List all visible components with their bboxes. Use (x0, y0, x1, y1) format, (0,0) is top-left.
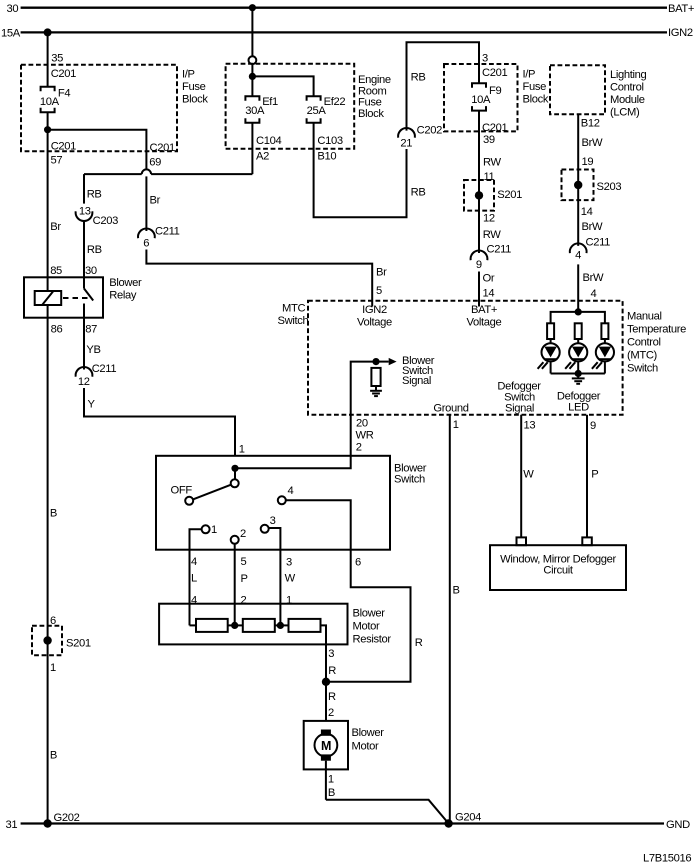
svg-text:Voltage: Voltage (467, 317, 502, 329)
svg-text:Engine: Engine (358, 74, 391, 86)
svg-text:B10: B10 (317, 151, 336, 163)
svg-text:Control: Control (610, 82, 644, 94)
svg-text:C203: C203 (93, 215, 118, 227)
relay contact (63, 277, 93, 317)
svg-text:P: P (591, 469, 598, 481)
svg-text:13: 13 (524, 420, 536, 432)
splice S203 (562, 170, 622, 234)
svg-text:Circuit: Circuit (543, 565, 573, 577)
connector C211 pin 6 (138, 225, 180, 249)
svg-text:14: 14 (483, 288, 495, 300)
svg-text:1: 1 (239, 444, 245, 456)
svg-text:BrW: BrW (583, 272, 604, 284)
svg-text:IGN2: IGN2 (362, 304, 387, 316)
svg-text:RB: RB (87, 244, 102, 256)
svg-text:(MTC): (MTC) (627, 350, 658, 362)
wire R2 to R3 (275, 624, 289, 626)
svg-text:B: B (453, 585, 460, 597)
fuse Ef1 30A (245, 96, 278, 123)
svg-text:WR: WR (356, 430, 374, 442)
node G202 (43, 812, 79, 828)
wire L blower switch 4 to resistor (190, 550, 198, 626)
wire 30 bus to engine room fuse block (251, 8, 253, 57)
svg-text:C211: C211 (92, 363, 117, 375)
svg-text:C211: C211 (586, 237, 611, 249)
svg-text:Module: Module (610, 94, 645, 106)
svg-text:GND: GND (666, 819, 690, 831)
resistor LED 3 (601, 323, 608, 343)
relay Blower Relay (24, 277, 142, 318)
wire A2 horizontal with hop over Br wire (84, 169, 252, 174)
I/P Fuse Block 2 (444, 53, 549, 132)
svg-text:25A: 25A (307, 105, 327, 117)
wire W blower switch 3 to resistor (280, 550, 295, 626)
connector C202 pin 21 (398, 71, 442, 198)
svg-text:21: 21 (400, 137, 412, 149)
svg-text:Blower: Blower (109, 277, 142, 289)
splice S201 (464, 180, 522, 241)
svg-text:Y: Y (88, 399, 96, 411)
svg-text:BrW: BrW (582, 137, 603, 149)
svg-text:IGN2: IGN2 (668, 27, 693, 39)
svg-text:4: 4 (191, 595, 197, 607)
resistor R3 (289, 619, 321, 632)
svg-text:BrW: BrW (582, 221, 603, 233)
switch contact 2 (231, 528, 246, 550)
svg-text:4: 4 (591, 288, 597, 300)
splice S201 on B wire (32, 615, 91, 674)
svg-text:1: 1 (211, 524, 217, 536)
svg-text:15A: 15A (1, 28, 21, 40)
svg-text:L7B15016: L7B15016 (643, 853, 691, 864)
node junction above Ef1 (249, 73, 256, 80)
svg-text:Lighting: Lighting (610, 69, 647, 81)
svg-text:S203: S203 (597, 181, 622, 193)
switch wiper pivot (193, 468, 239, 499)
svg-text:BAT+: BAT+ (471, 304, 497, 316)
wire Or to MTC pin 14 (479, 272, 495, 307)
svg-text:G204: G204 (455, 812, 481, 824)
svg-text:Temperature: Temperature (627, 324, 686, 336)
svg-text:2: 2 (240, 528, 246, 540)
svg-text:Control: Control (627, 337, 661, 349)
wire Y to blower switch pin 1 (84, 388, 245, 456)
svg-text:RW: RW (483, 229, 502, 241)
LED 1 (538, 343, 560, 373)
wire fuse F4 output (47, 112, 49, 152)
svg-text:86: 86 (51, 324, 63, 336)
svg-text:C201: C201 (150, 142, 175, 154)
wire motor output B to G204 (326, 761, 449, 824)
svg-text:19: 19 (582, 156, 594, 168)
svg-text:1: 1 (50, 662, 56, 674)
label Defogger LED (557, 391, 601, 414)
svg-text:C211: C211 (155, 225, 180, 237)
svg-text:R: R (328, 691, 336, 703)
label Br 5 at MTC pin 5 (376, 267, 387, 298)
svg-text:C201: C201 (51, 140, 76, 152)
svg-text:69: 69 (149, 156, 161, 168)
wire YB relay 87 to C211-12 (84, 318, 101, 370)
svg-text:C103: C103 (317, 135, 342, 147)
svg-text:OFF: OFF (171, 485, 193, 497)
svg-text:Br: Br (150, 195, 161, 207)
svg-text:P: P (241, 573, 248, 585)
svg-text:13: 13 (79, 205, 91, 217)
svg-text:Switch: Switch (278, 315, 309, 327)
connector C211 pin 12 (76, 363, 117, 388)
svg-text:C201: C201 (482, 122, 507, 134)
svg-text:C201: C201 (482, 67, 507, 79)
svg-text:Ef22: Ef22 (324, 96, 346, 108)
svg-text:Signal: Signal (402, 375, 431, 387)
svg-text:30A: 30A (245, 105, 265, 117)
wire pin 6 bypass to motor node (326, 550, 423, 682)
wire RB C203 to relay pin 30 (84, 221, 102, 277)
wire bus 15A IGN2 (1, 27, 693, 39)
resistor R1 (196, 619, 228, 632)
svg-text:39: 39 (483, 134, 495, 146)
svg-text:B: B (50, 750, 57, 762)
svg-text:Ground: Ground (433, 403, 468, 415)
svg-text:Room: Room (358, 85, 386, 97)
svg-text:1: 1 (453, 419, 459, 431)
svg-text:MTC: MTC (282, 303, 305, 315)
svg-text:Br: Br (50, 221, 61, 233)
svg-text:12: 12 (78, 376, 90, 388)
svg-text:1: 1 (328, 774, 334, 786)
node junction below F4 (44, 126, 51, 133)
resistor R2 (243, 619, 275, 632)
svg-text:R: R (328, 665, 336, 677)
wire BrW to MTC pin 4 (578, 264, 604, 312)
svg-text:S201: S201 (66, 638, 91, 650)
wire bus 30 BAT+ (7, 3, 695, 15)
wire C211-6 to MTC pin 5 (146, 250, 372, 307)
svg-text:6: 6 (143, 238, 149, 250)
fuse F4 10A (40, 87, 70, 112)
svg-text:85: 85 (50, 265, 62, 277)
node junction LED rail top (575, 308, 582, 315)
svg-text:Motor: Motor (352, 741, 379, 753)
wire B12 BrW to S203 (578, 114, 603, 246)
svg-text:6: 6 (355, 557, 361, 569)
wire L entry to resistor 1 (190, 624, 197, 626)
svg-text:2: 2 (328, 707, 334, 719)
svg-text:Relay: Relay (109, 289, 137, 301)
svg-text:C202: C202 (417, 124, 442, 136)
node junction blower switch input (231, 465, 238, 472)
svg-text:M: M (321, 739, 331, 753)
svg-text:C211: C211 (487, 244, 512, 256)
svg-text:B: B (50, 508, 57, 520)
wire R1 to R2 (228, 624, 243, 626)
wire Ef22 C103 B10 to C202 (314, 123, 407, 217)
svg-text:YB: YB (86, 344, 100, 356)
fuse F9 10A (471, 83, 501, 110)
switch contact 3 (261, 515, 281, 550)
svg-text:30: 30 (85, 265, 97, 277)
label IGN2 Voltage pin 5 (357, 304, 392, 329)
svg-text:BAT+: BAT+ (668, 3, 694, 15)
svg-text:LED: LED (568, 402, 589, 414)
wire 15A bus to fuse F4, label 35 (48, 32, 77, 86)
motor M (315, 730, 338, 761)
svg-text:Voltage: Voltage (357, 317, 392, 329)
svg-text:Block: Block (358, 108, 384, 120)
svg-text:Manual: Manual (627, 311, 662, 323)
svg-text:3: 3 (286, 557, 292, 569)
svg-text:W: W (523, 469, 534, 481)
svg-text:C104: C104 (256, 135, 281, 147)
resistor LED 1 (547, 323, 554, 343)
svg-text:Ef1: Ef1 (262, 96, 278, 108)
svg-text:4: 4 (191, 556, 197, 568)
svg-text:20: 20 (356, 418, 368, 430)
svg-text:L: L (191, 573, 197, 585)
wire P blower switch 5 to resistor (235, 550, 248, 626)
svg-text:F9: F9 (489, 85, 501, 97)
wire B relay 86 to G202 (48, 318, 57, 824)
svg-text:(LCM): (LCM) (610, 107, 640, 119)
svg-text:Switch: Switch (394, 474, 425, 486)
svg-text:I/P: I/P (523, 69, 536, 81)
ground symbol LED (572, 374, 585, 384)
svg-text:31: 31 (6, 819, 18, 831)
MTC Switch box (278, 301, 687, 415)
svg-text:30: 30 (7, 3, 19, 15)
LED 3 (592, 343, 614, 373)
svg-text:Br: Br (376, 267, 387, 279)
svg-text:10A: 10A (40, 96, 60, 108)
fuse Ef22 25A (307, 96, 346, 123)
svg-text:RB: RB (411, 71, 426, 83)
svg-text:87: 87 (85, 324, 97, 336)
svg-text:Blower: Blower (353, 608, 386, 620)
svg-text:W: W (285, 573, 296, 585)
resistor LED 2 (575, 323, 582, 343)
wire bus 31 GND (6, 819, 691, 831)
svg-text:RB: RB (87, 188, 102, 200)
connector C203 pin 13 (76, 205, 118, 227)
node junction P tap (231, 622, 238, 629)
svg-text:F4: F4 (58, 87, 70, 99)
node open circle terminal (249, 56, 257, 64)
node junction LED rail bottom (575, 370, 582, 377)
svg-text:I/P: I/P (182, 69, 195, 81)
svg-text:C201: C201 (51, 68, 76, 80)
resistor blower switch signal tap (351, 355, 435, 415)
svg-text:9: 9 (590, 420, 596, 432)
label BAT+ Voltage pin 14 (467, 304, 502, 329)
node junction resistor output (322, 678, 330, 686)
wire terminal to fuse rail (251, 64, 253, 96)
svg-text:G202: G202 (54, 812, 80, 824)
svg-text:14: 14 (581, 206, 593, 218)
svg-text:RW: RW (483, 157, 502, 169)
node junction on 15A bus (44, 28, 52, 36)
label Defogger Switch Signal (497, 381, 541, 415)
labels C201 57 on coil feed (51, 140, 77, 166)
svg-text:Resistor: Resistor (353, 634, 392, 646)
relay pin labels 86 87 (51, 324, 98, 336)
switch contact 1 (190, 524, 218, 550)
wire C202 up and over to F9 (407, 42, 480, 130)
svg-text:RB: RB (411, 187, 426, 199)
Blower Motor box (304, 721, 385, 770)
svg-text:12: 12 (483, 213, 495, 225)
LED 2 (565, 343, 587, 373)
svg-text:2: 2 (241, 595, 247, 607)
svg-text:9: 9 (476, 259, 482, 271)
svg-text:R: R (415, 637, 423, 649)
switch contact OFF (171, 485, 194, 505)
svg-text:Switch: Switch (627, 363, 658, 375)
svg-text:4: 4 (288, 485, 294, 497)
svg-text:3: 3 (328, 648, 334, 660)
svg-text:Motor: Motor (353, 621, 380, 633)
svg-text:3: 3 (270, 515, 276, 527)
Blower Motor Resistor box (159, 604, 391, 646)
wire junction to C201-69 drop (48, 130, 175, 170)
svg-text:5: 5 (376, 285, 382, 297)
wire RB drop to C203 (84, 174, 102, 204)
svg-text:4: 4 (575, 250, 581, 262)
wire resistor output (321, 625, 337, 721)
connector C211 pin 4 (570, 237, 610, 262)
svg-text:B12: B12 (581, 118, 600, 130)
svg-text:Block: Block (523, 93, 549, 105)
node junction on 30 bus (249, 4, 256, 11)
svg-text:B: B (328, 787, 335, 799)
svg-text:5: 5 (241, 556, 247, 568)
wire ground MTC pin 1 to G204 (450, 415, 460, 824)
switch contact 4 (278, 485, 351, 550)
wire Br to relay pin 85 (48, 152, 62, 277)
wire rail to Ef22 (252, 76, 313, 96)
svg-text:3: 3 (482, 53, 488, 65)
Lighting Control Module LCM (550, 65, 647, 118)
svg-text:Fuse: Fuse (523, 81, 547, 93)
svg-text:S201: S201 (497, 189, 522, 201)
label pins 20 WR 2 (356, 418, 374, 454)
wire LED top rail (551, 312, 605, 323)
wire F9 output RW (479, 111, 507, 253)
svg-text:Fuse: Fuse (358, 97, 382, 109)
wire LED bottom rail (551, 373, 605, 375)
wire P MTC 9 to defogger (582, 415, 598, 545)
svg-text:Blower: Blower (352, 727, 385, 739)
wire WR MTC 20 to blower switch 2 (235, 415, 351, 469)
svg-text:2: 2 (356, 442, 362, 454)
svg-text:A2: A2 (256, 151, 269, 163)
node junction W tap (277, 622, 284, 629)
node G204 (444, 812, 481, 828)
svg-text:35: 35 (51, 53, 63, 65)
svg-text:Or: Or (483, 273, 495, 285)
svg-text:10A: 10A (471, 94, 491, 106)
Engine Room Fuse Block (226, 64, 391, 149)
wire Br below hop to C211-6 (146, 176, 160, 231)
wire Ef1 to A2 (252, 123, 281, 174)
connector C211 pin 9 (471, 244, 512, 272)
svg-text:Fuse: Fuse (182, 81, 206, 93)
svg-text:Signal: Signal (505, 403, 534, 415)
svg-text:57: 57 (51, 154, 63, 166)
Window Mirror Defogger Circuit box (490, 545, 626, 590)
I/P Fuse Block 1 (21, 65, 208, 151)
wire W MTC 13 to defogger (517, 415, 536, 545)
relay coil (35, 277, 62, 317)
Blower Switch box (156, 456, 427, 550)
svg-text:1: 1 (286, 595, 292, 607)
svg-text:Block: Block (182, 93, 208, 105)
